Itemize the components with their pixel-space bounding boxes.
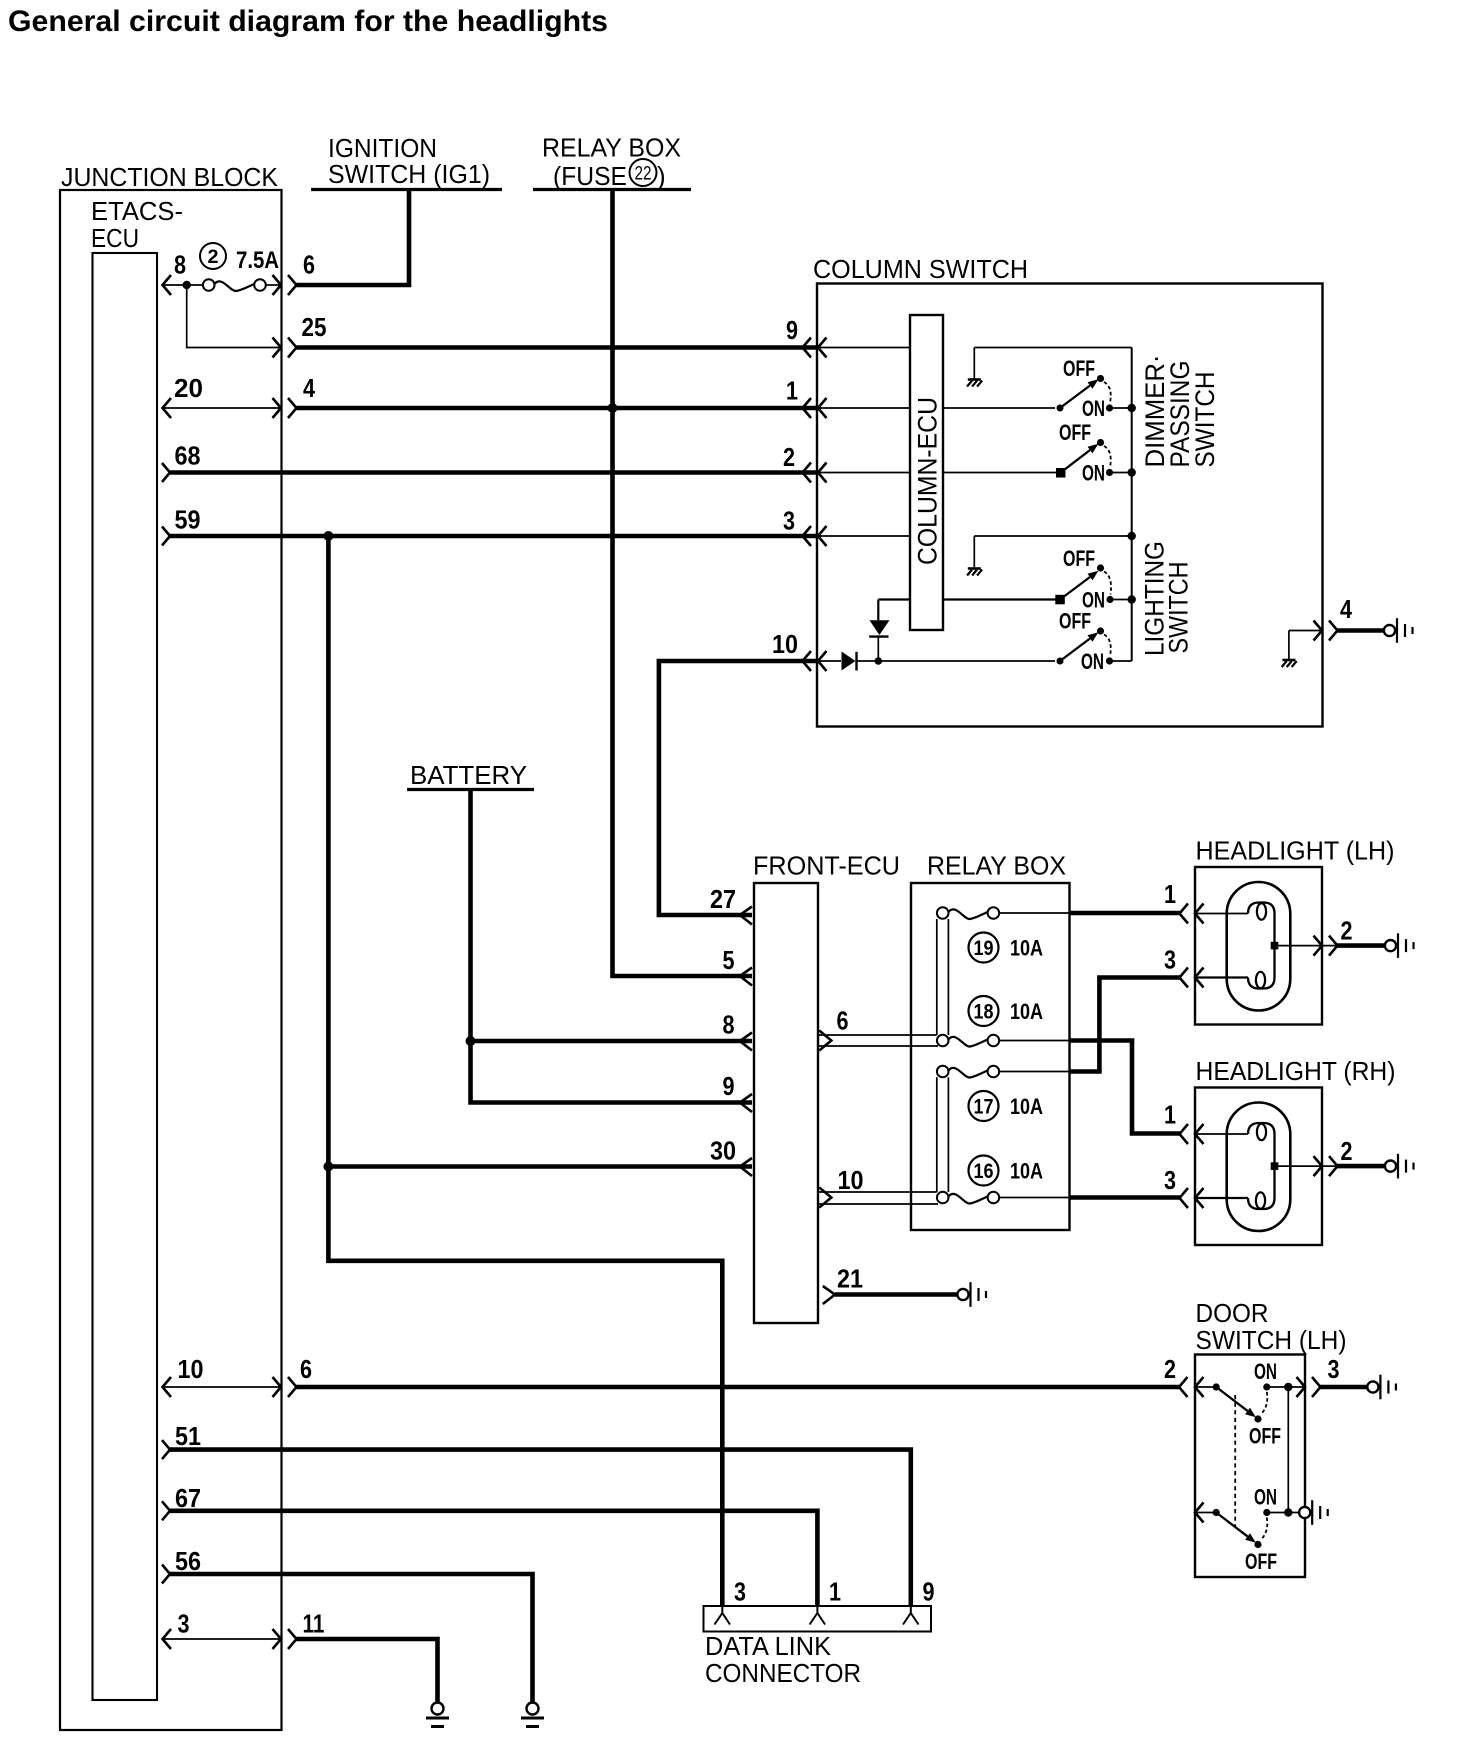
- svg-text:9: 9: [923, 1577, 935, 1607]
- door switch box: [1195, 1355, 1305, 1578]
- data link connector box: [704, 1606, 932, 1632]
- svg-text:2: 2: [783, 442, 795, 472]
- column switch pin 9 chevrons: [786, 315, 827, 358]
- svg-text:10A: 10A: [1010, 936, 1043, 961]
- svg-text:16: 16: [974, 1160, 994, 1183]
- svg-text:DOOR: DOOR: [1196, 1298, 1269, 1328]
- headlight LH box: [1195, 867, 1322, 1025]
- wire battery branch to FRONT-ECU pin 8: [471, 1039, 753, 1044]
- ETACS pin 20 arrow: [163, 373, 204, 418]
- svg-text:68: 68: [175, 441, 201, 471]
- node door contact 2: [1284, 1508, 1292, 1516]
- wire door pin 3 to body ground: [1320, 1375, 1396, 1400]
- node bus lighting 1: [1128, 595, 1136, 603]
- node pin 30 branch: [323, 1162, 333, 1172]
- bus vertical switch common line: [1131, 348, 1133, 662]
- HEADLIGHT (LH) bulb: [1227, 882, 1291, 1011]
- wire pin 10: [163, 1386, 282, 1388]
- FRONT-ECU box: [754, 883, 818, 1323]
- junction block label: [61, 162, 279, 192]
- wire pin 3 into COLUMN-ECU: [818, 535, 910, 537]
- node bus dimmer 2: [1128, 468, 1136, 476]
- svg-text:SWITCH (LH): SWITCH (LH): [1196, 1325, 1347, 1355]
- column switch box: [817, 284, 1323, 727]
- connector pin 6 lower chevrons: [273, 1354, 313, 1397]
- column switch pin 4 chevrons: [1314, 594, 1353, 641]
- svg-text:6: 6: [837, 1006, 849, 1036]
- HEADLIGHT (LH) label: [1196, 836, 1395, 866]
- svg-text:3: 3: [1164, 945, 1176, 975]
- node bus/G2: [1128, 532, 1136, 540]
- svg-text:(FUSE: (FUSE: [553, 161, 627, 191]
- ETACS pin 56 connector: [162, 1546, 201, 1584]
- wire column pin 10 from FRONT-ECU pin 27: [659, 661, 818, 915]
- svg-text:ON: ON: [1082, 461, 1105, 486]
- svg-text:ON: ON: [1254, 1359, 1277, 1384]
- wire pin 67 to data link pin 1: [169, 1511, 817, 1606]
- svg-text:ECU: ECU: [91, 223, 139, 253]
- wire pin 68 to column switch pin 2: [169, 470, 818, 475]
- node pin 59 branch: [323, 531, 333, 541]
- svg-text:6: 6: [303, 250, 315, 280]
- wire pin 56 to earth ground: [169, 1574, 533, 1703]
- wire pin 6 to door switch pin 2: [296, 1385, 1179, 1390]
- svg-text:20: 20: [174, 373, 203, 403]
- HEADLIGHT (RH) label: [1196, 1056, 1396, 1086]
- wire diode D2 to COLUMN-ECU: [878, 598, 910, 600]
- wire pin 25 to column switch pin 9: [296, 345, 818, 350]
- HEADLIGHT (LH) pin wires inside: [1196, 914, 1338, 978]
- svg-text:6: 6: [300, 1354, 312, 1384]
- wire pin 10 double line to relay box: [818, 1192, 938, 1204]
- svg-text:4: 4: [303, 373, 315, 403]
- fuse 18: [937, 996, 1043, 1047]
- svg-text:SWITCH: SWITCH: [1164, 562, 1194, 654]
- relay box (fuse 22) label: [533, 133, 691, 192]
- svg-text:10: 10: [178, 1354, 204, 1384]
- HEADLIGHT (LH) pin 2 wire to body ground: [1337, 933, 1414, 958]
- data link connector terminal 1: [810, 1606, 826, 1625]
- svg-text:RELAY BOX: RELAY BOX: [927, 851, 1066, 881]
- wire COLUMN-ECU to dimmer switch 2 common: [943, 472, 1056, 474]
- door switch mechanical link dashed: [1234, 1395, 1236, 1527]
- FRONT-ECU pin 8: [723, 1010, 753, 1051]
- node door switch pin3: [1284, 1383, 1292, 1391]
- ETACS pin 67 connector: [162, 1483, 201, 1520]
- svg-text:30: 30: [710, 1136, 736, 1166]
- door switch contact 2: [1195, 1503, 1299, 1549]
- svg-text:3: 3: [1164, 1165, 1176, 1195]
- ETACS pin 59 connector: [162, 505, 201, 546]
- svg-text:56: 56: [175, 1546, 201, 1576]
- svg-text:25: 25: [302, 312, 327, 342]
- ETACS pin 3 arrow: [163, 1609, 190, 1650]
- FRONT-ECU pin 21: [823, 1264, 863, 1305]
- ground G1 dimmer: [967, 348, 982, 387]
- wire fuse19 to box edge: [999, 912, 1069, 914]
- ETACS pin 51 connector: [162, 1421, 201, 1459]
- connector pin 6 chevrons: [273, 250, 316, 296]
- svg-text:BATTERY: BATTERY: [410, 760, 527, 790]
- dimmer switch 1: [1057, 375, 1132, 412]
- fuse 19: [937, 907, 1043, 962]
- svg-text:1: 1: [829, 1577, 841, 1607]
- door switch label: [1196, 1298, 1347, 1355]
- svg-text:OFF: OFF: [1059, 609, 1091, 634]
- wire pin 3: [163, 1638, 282, 1640]
- data link connector terminal 9: [903, 1606, 919, 1625]
- svg-text:27: 27: [710, 884, 736, 914]
- wire fuse16 to box edge: [999, 1197, 1069, 1199]
- svg-text:17: 17: [974, 1096, 994, 1119]
- svg-text:51: 51: [175, 1421, 201, 1451]
- wire pin 30 to FRONT-ECU: [328, 1164, 752, 1169]
- connector pin 25 chevrons: [273, 312, 327, 358]
- door switch contact 1: [1195, 1383, 1305, 1422]
- wire fuse17 to box edge: [999, 1071, 1069, 1073]
- diode D2 vertical: [869, 600, 889, 662]
- svg-text:COLUMN SWITCH: COLUMN SWITCH: [813, 254, 1028, 284]
- wire pin 8 row: [163, 284, 282, 286]
- node battery branch: [466, 1036, 476, 1046]
- svg-text:HEADLIGHT (RH): HEADLIGHT (RH): [1196, 1056, 1396, 1086]
- svg-text:RELAY BOX: RELAY BOX: [542, 133, 681, 163]
- svg-text:10: 10: [772, 629, 798, 659]
- svg-text:2: 2: [1341, 916, 1353, 946]
- svg-text:): ): [657, 161, 666, 191]
- wire pin 59 to column switch pin 3: [169, 534, 818, 539]
- HEADLIGHT (LH) pin 2 chevrons: [1314, 916, 1353, 956]
- svg-text:General circuit diagram for th: General circuit diagram for the headligh…: [8, 5, 608, 38]
- HEADLIGHT (RH) pin wires inside: [1196, 1134, 1338, 1198]
- svg-text:4: 4: [1340, 594, 1352, 624]
- svg-text:ON: ON: [1081, 649, 1104, 674]
- headlight RH box: [1195, 1088, 1322, 1246]
- svg-text:10A: 10A: [1010, 999, 1043, 1024]
- HEADLIGHT (RH) pin 2 chevrons: [1314, 1136, 1353, 1176]
- svg-text:22: 22: [635, 164, 652, 185]
- svg-text:SWITCH: SWITCH: [1190, 372, 1220, 468]
- data link connector pins: [734, 1577, 935, 1607]
- wire ignition switch to pin 6: [296, 191, 409, 285]
- svg-text:1: 1: [1164, 879, 1176, 909]
- data link connector terminal 3: [715, 1606, 731, 1625]
- svg-text:DATA LINK: DATA LINK: [705, 1631, 832, 1661]
- svg-text:19: 19: [974, 937, 994, 960]
- wire pin 51 to data link pin 9: [169, 1450, 911, 1606]
- column switch pin 2 chevrons: [783, 442, 827, 483]
- FRONT-ECU pin 27: [710, 884, 752, 925]
- door switch contact 2 labels: [1245, 1485, 1277, 1575]
- wire pin 20: [163, 407, 282, 409]
- wire ground G1 to bus: [974, 347, 1131, 349]
- RELAY BOX label: [927, 851, 1066, 881]
- svg-text:1: 1: [1164, 1100, 1176, 1130]
- svg-text:ON: ON: [1254, 1485, 1277, 1510]
- title: [8, 5, 608, 38]
- svg-text:5: 5: [723, 945, 735, 975]
- svg-text:2: 2: [1341, 1136, 1353, 1166]
- wire fuse18 to box edge: [999, 1040, 1069, 1042]
- wire link contact1 to contact2: [1287, 1387, 1289, 1513]
- svg-text:9: 9: [723, 1071, 735, 1101]
- HEADLIGHT (RH) pin 3 chevrons: [1164, 1165, 1204, 1208]
- earth ground pin 11: [426, 1703, 449, 1727]
- door switch contact 1 labels: [1249, 1359, 1281, 1449]
- wire pin 8 branch to pin 25: [187, 285, 281, 348]
- node bus dimmer 1: [1128, 404, 1136, 412]
- svg-text:CONNECTOR: CONNECTOR: [705, 1658, 861, 1688]
- svg-text:21: 21: [837, 1264, 863, 1294]
- wire pin 2 into COLUMN-ECU: [818, 472, 910, 474]
- wire COLUMN-ECU to lighting switch 1 common: [943, 598, 1056, 600]
- HEADLIGHT (LH) pin 1 chevrons: [1164, 879, 1204, 924]
- svg-text:ON: ON: [1082, 396, 1105, 421]
- svg-text:JUNCTION BLOCK: JUNCTION BLOCK: [61, 162, 279, 192]
- column switch label: [813, 254, 1028, 284]
- battery label: [407, 760, 534, 790]
- junction block box: [60, 190, 282, 1730]
- FRONT-ECU label: [753, 851, 900, 881]
- svg-text:10A: 10A: [1010, 1159, 1043, 1184]
- svg-text:COLUMN-ECU: COLUMN-ECU: [913, 397, 943, 565]
- wire COLUMN-ECU to dimmer switch 1 common: [943, 407, 1055, 409]
- svg-text:3: 3: [1328, 1354, 1340, 1384]
- column switch pin 10 chevrons: [772, 629, 827, 671]
- svg-text:59: 59: [175, 505, 201, 535]
- svg-text:11: 11: [303, 1609, 325, 1639]
- COLUMN-ECU box: [910, 315, 943, 630]
- svg-text:3: 3: [783, 506, 795, 536]
- wire pin 4 ground drop: [1282, 631, 1322, 668]
- svg-text:OFF: OFF: [1063, 546, 1095, 571]
- FRONT-ECU pin 6: [819, 1006, 848, 1051]
- svg-text:HEADLIGHT (LH): HEADLIGHT (LH): [1196, 836, 1395, 866]
- svg-text:2: 2: [1164, 1354, 1176, 1384]
- fuse 2 7.5A: [200, 243, 279, 291]
- wire fuse18 to headlight RH pin 1: [1070, 1041, 1181, 1134]
- svg-text:18: 18: [974, 1001, 994, 1024]
- data link connector label: [705, 1631, 861, 1688]
- wire fuse19 to headlight LH pin 1: [1070, 911, 1181, 916]
- fuse 16: [937, 1156, 1043, 1204]
- HEADLIGHT (RH) bulb: [1227, 1103, 1291, 1232]
- svg-text:3: 3: [734, 1577, 746, 1607]
- wire pin 4 to column switch pin 1: [296, 406, 818, 411]
- diode D1 series in pin 10 line: [818, 652, 878, 671]
- FRONT-ECU pin 30: [710, 1136, 752, 1177]
- lighting switch 2: [1057, 627, 1132, 664]
- svg-text:2: 2: [208, 247, 219, 268]
- svg-text:7.5A: 7.5A: [236, 247, 279, 274]
- svg-text:8: 8: [174, 250, 186, 280]
- wire pin 11 to earth ground: [296, 1639, 438, 1703]
- ETACS-ECU box: [93, 253, 158, 1700]
- wire pin 59 branch down to data link connector: [328, 536, 722, 1606]
- dimmer switch 1 labels: [1063, 356, 1105, 421]
- lighting switch 2 labels: [1059, 609, 1104, 675]
- wire fuse17 to headlight LH pin 3: [1070, 978, 1181, 1072]
- relay box box: [911, 883, 1070, 1230]
- door switch pin 2 chevrons: [1164, 1354, 1204, 1397]
- svg-text:SWITCH (IG1): SWITCH (IG1): [328, 159, 490, 189]
- FRONT-ECU pin 5: [723, 945, 753, 986]
- wire fuse 22 vertical to FRONT-ECU pin 5: [613, 191, 753, 976]
- svg-text:OFF: OFF: [1059, 420, 1091, 445]
- svg-text:OFF: OFF: [1063, 356, 1095, 381]
- ignition switch (IG1) label: [311, 133, 502, 190]
- svg-text:OFF: OFF: [1249, 1424, 1281, 1449]
- wire pin 6 double line to relay box: [818, 1035, 938, 1046]
- earth ground pin 56: [521, 1703, 544, 1727]
- svg-text:9: 9: [786, 315, 798, 345]
- svg-text:10A: 10A: [1010, 1094, 1043, 1119]
- door switch pin 3 chevrons: [1297, 1354, 1340, 1397]
- ground G2 lighting: [967, 536, 982, 576]
- wire pin 21 to body ground: [835, 1282, 986, 1307]
- dimmer switch 2 labels: [1059, 420, 1105, 486]
- svg-text:ETACS-: ETACS-: [91, 196, 183, 226]
- lighting switch label: [1140, 541, 1194, 656]
- wire battery to FRONT-ECU pin 9: [471, 791, 753, 1103]
- FRONT-ECU pin 9: [723, 1071, 753, 1112]
- ETACS pin 8 arrow: [163, 250, 187, 296]
- column switch pin 1 chevrons: [786, 376, 827, 419]
- svg-text:FRONT-ECU: FRONT-ECU: [753, 851, 900, 881]
- lighting switch 1: [1055, 564, 1131, 604]
- COLUMN-ECU label: [913, 397, 943, 565]
- svg-text:1: 1: [786, 376, 798, 406]
- HEADLIGHT (RH) pin 1 chevrons: [1164, 1100, 1204, 1145]
- HEADLIGHT (RH) pin 2 wire to body ground: [1337, 1154, 1414, 1179]
- wire pin 9 into COLUMN-ECU: [818, 347, 910, 349]
- HEADLIGHT (LH) pin 3 chevrons: [1164, 945, 1204, 988]
- ETACS pin 68 connector: [162, 441, 201, 483]
- dimmer passing switch label: [1140, 355, 1220, 468]
- svg-text:OFF: OFF: [1245, 1549, 1277, 1574]
- wire pin 10 to lighting switch 2 common: [878, 660, 1055, 662]
- svg-text:10: 10: [838, 1165, 864, 1195]
- column switch pin 3 chevrons: [783, 506, 827, 547]
- node diode junction: [875, 657, 883, 665]
- node pin 8 branch: [183, 281, 191, 289]
- FRONT-ECU pin 10: [819, 1165, 863, 1208]
- fuse 17: [937, 1066, 1043, 1121]
- wire pin 4 to body ground: [1337, 618, 1413, 643]
- wire fuse16 to headlight RH pin 3: [1070, 1195, 1181, 1200]
- wire ground G2 to bus: [974, 535, 1131, 537]
- dimmer switch 2: [1056, 439, 1132, 478]
- connector pin 11 chevrons: [273, 1609, 325, 1650]
- door switch contact 2 body ground: [1299, 1500, 1328, 1525]
- junction fuse22/pin4 wire: [608, 403, 618, 413]
- bus fuse19 to fuse18: [937, 919, 949, 1035]
- svg-text:3: 3: [178, 1609, 190, 1639]
- ETACS-ECU label: [91, 196, 183, 253]
- lighting switch 1 labels: [1063, 546, 1105, 613]
- connector pin 4 chevrons: [273, 373, 316, 418]
- bus fuse17 to fuse16: [937, 1077, 949, 1192]
- wire pin 1 into COLUMN-ECU: [818, 407, 910, 409]
- ETACS pin 10 arrow: [163, 1354, 204, 1397]
- svg-text:8: 8: [723, 1010, 735, 1040]
